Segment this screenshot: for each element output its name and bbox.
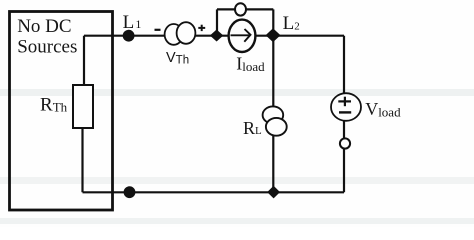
scan artifact band 2	[0, 177, 474, 184]
wire: bypass top horizontal	[217, 8, 273, 10]
node L2 (filled diamond)	[266, 28, 281, 42]
wire: vertical through L2 and R_L down to bottom wire	[272, 9, 274, 192]
scan artifact band 1	[0, 89, 474, 96]
wire: right vertical through V_load	[343, 36, 345, 193]
wire: bottom horizontal	[83, 191, 345, 193]
source V_load	[331, 93, 361, 121]
small circle on bypass wire	[235, 3, 246, 15]
wire: top horizontal from box to V_load branch	[84, 35, 344, 37]
resistor R_Th body	[73, 85, 93, 128]
node L1 (filled dot)	[123, 30, 135, 42]
wire: vertical from R_Th bottom to bottom wire	[81, 127, 83, 192]
minus sign left of V_Th	[155, 29, 161, 31]
small terminal circle below V_load	[340, 138, 350, 148]
source V_Th (double circle)	[165, 24, 183, 45]
bottom junction dot under R_L (diamond)	[267, 186, 280, 199]
svg-text:No DC: No DC	[17, 16, 71, 37]
plus sign right of V_Th	[198, 25, 205, 31]
outer box: No DC Sources network	[10, 12, 113, 211]
wire: bypass left vertical at junction	[216, 9, 218, 35]
svg-text:Sources: Sources	[17, 36, 77, 57]
load R_L (double circle)	[263, 106, 284, 123]
junction node after V_Th (filled diamond)	[210, 30, 223, 42]
scan artifact band 3	[0, 218, 474, 224]
wire: vertical inside box from top wire down to R_Th top	[83, 36, 85, 86]
plus sign inside V_load	[338, 97, 351, 113]
bottom-left junction dot	[124, 186, 136, 198]
arrow inside I_load	[231, 29, 251, 42]
current source I_load	[229, 20, 256, 52]
